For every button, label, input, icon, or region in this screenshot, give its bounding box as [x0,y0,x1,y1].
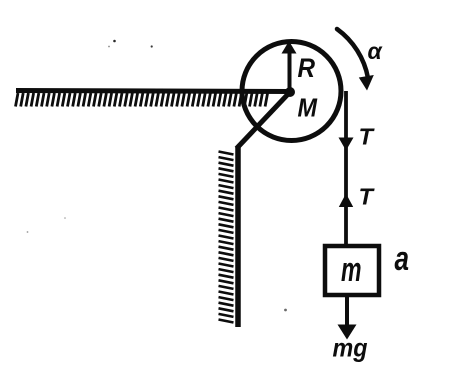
horizontal wall hatching [16,93,268,107]
tension arrow T (down) head [339,138,354,151]
radius arrow R head [282,41,297,54]
support bar from wall corner to pulley axle [237,92,291,149]
tension arrow T (up) head [339,194,353,208]
angular acceleration arrowhead [359,75,374,91]
angular acceleration arc [337,29,368,78]
svg-text:a: a [395,240,410,278]
svg-text:M: M [298,93,319,123]
vertical wall [235,147,241,327]
svg-text:m: m [341,251,362,289]
svg-text:T: T [359,184,375,210]
weight arrow mg shaft [345,297,349,327]
scan speck [27,231,29,233]
weight arrow mg head [338,325,357,340]
radius arrow R shaft [288,52,292,92]
pulley axle dot [285,87,295,97]
svg-text:α: α [368,38,384,64]
string from pulley to block [344,91,348,244]
svg-text:T: T [359,124,375,150]
block m [325,246,379,295]
svg-text:mg: mg [333,333,368,363]
scan speck [284,309,287,312]
horizontal ceiling wall [16,91,290,92]
pulley disc M [242,42,341,141]
vertical wall hatching [219,152,234,323]
scan speck [151,45,153,47]
scan speck [108,46,110,48]
svg-text:R: R [298,53,316,83]
scan speck [64,217,66,219]
scan speck [113,40,116,43]
